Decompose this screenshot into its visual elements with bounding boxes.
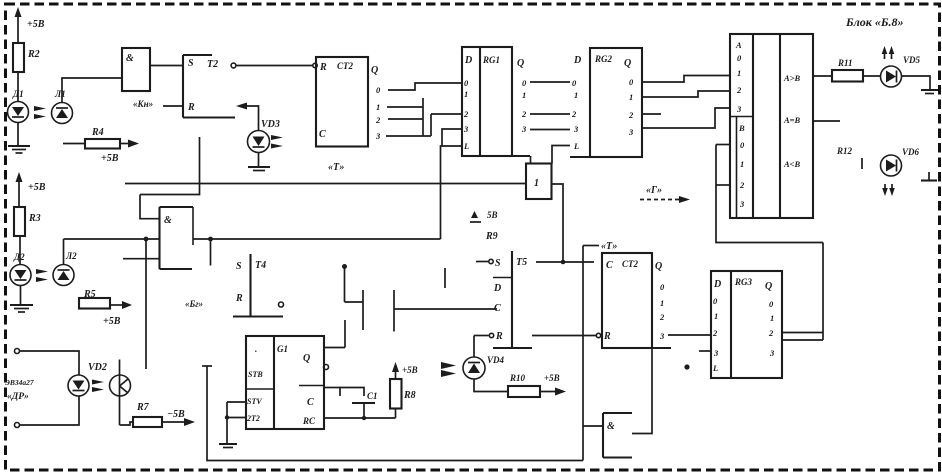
wire CT1 Q3 to RG1	[386, 129, 462, 146]
gate DD4 AND	[603, 413, 632, 458]
svg-text:STV: STV	[247, 397, 262, 406]
svg-text:R: R	[603, 331, 611, 342]
svg-text:3: 3	[573, 124, 579, 134]
wire T5 R node	[474, 333, 494, 337]
svg-text:«Т»: «Т»	[601, 241, 617, 252]
LED VD5	[881, 46, 921, 87]
resistor R11	[832, 58, 880, 82]
svg-text:1: 1	[714, 311, 718, 321]
svg-text:Q: Q	[765, 281, 772, 292]
wire T2 output to CT1 R	[236, 63, 317, 67]
wire CT1 Q0 to RG1	[388, 83, 462, 90]
wire T5 output to CT2 R	[532, 333, 601, 337]
svg-text:1: 1	[464, 89, 468, 99]
svg-text:RG1: RG1	[482, 55, 500, 65]
wire RG1 Q3 to RG2 D3	[530, 129, 570, 131]
svg-text:Q: Q	[371, 65, 378, 76]
svg-text:1: 1	[522, 90, 526, 100]
svg-text:Блок «Б.8»: Блок «Б.8»	[845, 15, 904, 29]
svg-text:R: R	[235, 293, 243, 304]
comparator DD8	[730, 34, 813, 218]
bus wire y183	[125, 183, 526, 185]
svg-text:.: .	[255, 344, 257, 354]
wire T5 S input	[476, 259, 493, 263]
svg-text:А: А	[735, 40, 742, 50]
svg-text:1: 1	[737, 68, 741, 78]
wire L1 top to gate DD1	[62, 78, 122, 103]
svg-text:RC: RC	[302, 416, 316, 426]
svg-text:Л1: Л1	[54, 89, 66, 99]
svg-text:R3: R3	[28, 213, 41, 224]
wire gate DD4 output to CT2	[632, 349, 652, 434]
wire comparator A>B output	[813, 75, 832, 77]
svg-text:Q: Q	[517, 58, 524, 69]
power +5V R9	[470, 210, 498, 242]
optocoupler VD2 coupling arrows	[92, 380, 104, 393]
svg-text:+5В: +5В	[28, 182, 46, 193]
svg-text:Л2: Л2	[65, 251, 77, 261]
register RG1	[462, 47, 530, 156]
wire inverter output down	[536, 184, 563, 262]
wire RG2 Q1 to comparator	[642, 91, 730, 97]
ground after VD5	[902, 76, 939, 94]
svg-text:+5В: +5В	[103, 316, 121, 327]
svg-text:3: 3	[769, 348, 775, 358]
wire T4 S input	[210, 239, 212, 266]
wire RG2 Q0 to comparator	[642, 76, 730, 83]
wire G1 left pins to ground	[219, 402, 246, 448]
wire jog from vertical	[140, 137, 200, 195]
optocoupler VD2 input terminal 2	[15, 396, 80, 428]
svg-text:2: 2	[628, 110, 634, 120]
svg-text:R2: R2	[27, 49, 40, 60]
svg-text:«Бг»: «Бг»	[185, 299, 203, 309]
optocoupler VD2 phototransistor	[110, 360, 131, 426]
svg-text:3: 3	[521, 124, 527, 134]
wire RG3 D3 stub	[699, 350, 711, 352]
svg-text:3: 3	[375, 131, 381, 141]
wire G1 RC net	[324, 416, 396, 420]
svg-text:−5В: −5В	[167, 409, 185, 420]
photodiode D1	[8, 89, 29, 123]
svg-text:R: R	[495, 331, 503, 342]
svg-text:RG2: RG2	[594, 54, 613, 64]
svg-text:R: R	[319, 62, 327, 73]
svg-text:STB: STB	[248, 370, 263, 379]
wire Kn to T2 R	[163, 105, 183, 107]
counter CT2	[602, 253, 671, 348]
svg-text:L: L	[712, 363, 718, 373]
LED L1	[52, 89, 73, 124]
label G dashed arrow	[640, 185, 690, 203]
svg-text:2: 2	[463, 109, 469, 119]
svg-text:L: L	[573, 141, 579, 151]
svg-text:Q: Q	[655, 261, 662, 272]
ground under VD3	[248, 153, 270, 171]
svg-text:1: 1	[376, 102, 380, 112]
svg-text:1: 1	[660, 298, 664, 308]
svg-text:C: C	[606, 260, 613, 271]
svg-text:D: D	[573, 55, 581, 66]
svg-text:1: 1	[770, 313, 774, 323]
gate DD1 AND	[122, 48, 150, 91]
resistor R3	[14, 207, 41, 236]
wire gate DD2 input C	[123, 258, 160, 260]
svg-text:Т2: Т2	[207, 59, 218, 70]
svg-text:2: 2	[521, 109, 527, 119]
power +5V rail 2	[16, 172, 46, 207]
svg-text:3: 3	[463, 124, 469, 134]
resistor R5	[79, 289, 132, 327]
LED L2	[53, 251, 77, 286]
node junction dot	[684, 364, 689, 369]
svg-text:R8: R8	[403, 390, 416, 401]
svg-text:R11: R11	[837, 58, 853, 68]
wire vertical tap to bus	[144, 237, 149, 369]
resistor R2	[13, 43, 40, 72]
svg-text:&: &	[607, 421, 615, 432]
wire L2 top to bus	[63, 239, 65, 265]
svg-text:CT2: CT2	[622, 259, 639, 269]
wire comparator B0 stub	[716, 144, 730, 146]
wire stub vertical A	[362, 290, 364, 330]
ground under D1	[8, 123, 30, 154]
wire to RG1 load input	[441, 146, 463, 239]
power +5V rail 1	[15, 7, 45, 43]
LED VD3	[248, 119, 284, 153]
svg-text:2: 2	[768, 328, 774, 338]
svg-text:VD4: VD4	[487, 355, 505, 365]
wire gate DD2 input A	[140, 195, 160, 219]
svg-text:«ДР»: «ДР»	[7, 392, 29, 402]
wire feedback loop vertical	[716, 145, 823, 243]
gate DD2 AND	[160, 207, 194, 269]
wire to T5 C input	[394, 308, 497, 310]
register RG2	[570, 48, 642, 157]
svg-text:G1: G1	[277, 344, 288, 354]
svg-text:R9: R9	[485, 231, 498, 242]
svg-text:«Т»: «Т»	[328, 162, 344, 173]
svg-text:S: S	[236, 261, 242, 272]
svg-text:R: R	[187, 102, 195, 113]
label T input	[583, 241, 617, 252]
ground under D2	[10, 286, 33, 313]
wire RG3 Q3 output	[782, 339, 823, 341]
flip-flop T4	[233, 254, 284, 317]
wire VD4 to R10	[474, 379, 508, 392]
svg-text:C1: C1	[367, 391, 378, 401]
svg-text:Д1: Д1	[12, 89, 24, 99]
svg-text:+5В: +5В	[402, 365, 418, 375]
svg-text:2: 2	[739, 180, 745, 190]
resistor R7	[120, 402, 196, 427]
wire stub segment	[444, 268, 446, 288]
svg-text:+5В: +5В	[101, 153, 119, 164]
svg-text:Q: Q	[624, 58, 631, 69]
svg-text:А<В: А<В	[783, 159, 801, 169]
wire comparator B2 stub	[716, 184, 730, 186]
svg-text:VD5: VD5	[903, 55, 921, 65]
wire RG1 Q0 to RG2 D0	[530, 81, 570, 83]
svg-text:2: 2	[712, 328, 718, 338]
svg-text:VD2: VD2	[88, 362, 107, 373]
wire CT2 Q3 to RG3	[668, 334, 711, 336]
counter CT1	[316, 57, 381, 147]
wire inverter to RG1 load	[530, 156, 532, 164]
svg-text:+5В: +5В	[27, 19, 45, 30]
wire gate DD1 output to T2 S	[150, 65, 183, 67]
wire stub vertical B	[393, 290, 395, 332]
resistor R4	[63, 127, 139, 164]
wire bus into gate DD2	[64, 238, 160, 240]
wire inverter to RG2 load	[552, 146, 570, 164]
svg-text:+5В: +5В	[544, 373, 560, 383]
svg-text:R10: R10	[509, 373, 526, 383]
svg-text:S: S	[188, 58, 194, 69]
photodiode D2	[10, 252, 31, 286]
svg-text:3: 3	[628, 127, 634, 137]
svg-text:&: &	[164, 215, 172, 226]
phototransistor VD4	[441, 355, 505, 379]
svg-text:А>В: А>В	[783, 73, 801, 83]
svg-text:«Г»: «Г»	[646, 185, 662, 196]
wire bottom rail	[202, 246, 583, 461]
wire node with dot	[342, 264, 363, 302]
LED VD6	[881, 147, 920, 196]
svg-text:3: 3	[739, 199, 745, 209]
wire RG2 Q2 stub	[642, 113, 661, 115]
svg-text:2Т2: 2Т2	[246, 414, 260, 423]
opto coupling arrows 2	[36, 269, 48, 282]
resistor R8	[390, 362, 418, 418]
svg-text:3: 3	[659, 331, 665, 341]
wire gate DD2 output	[193, 237, 441, 242]
resistor R12	[836, 146, 862, 169]
wire gate DD4 input	[583, 425, 603, 427]
wire RG2 Q3 to comparator	[642, 108, 730, 128]
svg-text:1: 1	[629, 92, 633, 102]
svg-text:RG3: RG3	[734, 277, 753, 287]
svg-text:1: 1	[534, 178, 539, 189]
svg-text:А=В: А=В	[783, 115, 801, 125]
svg-text:VD6: VD6	[902, 147, 920, 157]
svg-text:ЭВ34а27: ЭВ34а27	[5, 378, 34, 387]
svg-text:Q: Q	[303, 353, 310, 364]
svg-text:2: 2	[571, 109, 577, 119]
ground after VD6	[921, 172, 937, 181]
svg-text:CT2: CT2	[337, 61, 354, 71]
wire VD4 to T5 R node	[473, 336, 475, 358]
wire R3 to D2	[19, 236, 21, 265]
flip-flop T5	[493, 251, 532, 348]
svg-text:1: 1	[574, 90, 578, 100]
svg-text:VD3: VD3	[261, 119, 280, 130]
svg-text:R12: R12	[836, 146, 853, 156]
svg-text:«Кн»: «Кн»	[133, 99, 153, 109]
wire feedback loop down to RG3	[822, 243, 824, 341]
optocoupler VD2 input terminal 1	[15, 349, 80, 375]
optocoupler VD2 LED	[68, 362, 107, 396]
svg-text:2: 2	[736, 85, 742, 95]
wire CT1 Q1 to RG1	[387, 106, 423, 108]
svg-text:&: &	[126, 53, 134, 64]
capacitor C1	[324, 388, 378, 419]
wire RG3 Q2 output	[782, 332, 823, 334]
wire comparator A=B output	[813, 120, 840, 122]
svg-text:1: 1	[740, 159, 744, 169]
svg-text:L: L	[463, 141, 469, 151]
inverter DD3	[526, 164, 552, 200]
svg-text:В: В	[738, 123, 745, 133]
svg-text:R7: R7	[136, 402, 150, 413]
svg-text:C: C	[319, 129, 326, 140]
svg-text:2: 2	[375, 115, 381, 125]
flip-flop T2	[183, 55, 236, 118]
svg-text:Т4: Т4	[255, 260, 266, 271]
svg-text:2: 2	[659, 312, 665, 322]
svg-text:Д2: Д2	[13, 252, 25, 262]
svg-text:3: 3	[736, 104, 742, 114]
svg-text:D: D	[713, 279, 721, 290]
wire R2 to D1	[17, 72, 19, 102]
opto coupling arrows 1	[34, 106, 46, 119]
svg-text:Т5: Т5	[516, 257, 527, 268]
svg-text:D: D	[464, 55, 472, 66]
svg-text:S: S	[495, 258, 501, 269]
wire RG1 Q2 to RG2 D2	[530, 113, 570, 115]
wire T2 to LED VD3	[236, 103, 259, 131]
one-shot G1	[246, 336, 329, 429]
wire G1 output	[324, 320, 345, 348]
svg-text:R4: R4	[91, 127, 104, 138]
svg-text:C: C	[307, 397, 314, 408]
svg-text:D: D	[493, 283, 501, 294]
svg-text:5В: 5В	[487, 210, 498, 220]
register RG3	[711, 271, 782, 378]
svg-text:3: 3	[713, 348, 719, 358]
wire CT1 Q2 to RG1	[388, 98, 462, 136]
resistor R10	[508, 373, 566, 397]
